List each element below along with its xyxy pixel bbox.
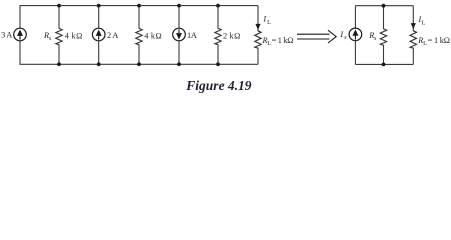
svg-text:A: A — [191, 31, 197, 40]
svg-text:A: A — [6, 31, 12, 40]
svg-text:kΩ: kΩ — [230, 31, 241, 40]
svg-text:3: 3 — [1, 31, 5, 40]
svg-text:s: s — [374, 35, 377, 42]
svg-text:kΩ: kΩ — [151, 31, 162, 40]
svg-text:s: s — [344, 34, 347, 41]
svg-text:Figure 4.19: Figure 4.19 — [185, 78, 252, 93]
svg-text:A: A — [112, 31, 118, 40]
svg-text:L: L — [423, 40, 427, 47]
svg-text:kΩ: kΩ — [72, 31, 83, 40]
svg-text:= 1 kΩ: = 1 kΩ — [428, 36, 450, 45]
svg-text:4: 4 — [144, 31, 149, 40]
svg-text:4: 4 — [65, 31, 70, 40]
svg-text:L: L — [422, 19, 426, 26]
svg-text:L: L — [267, 19, 271, 26]
svg-text:2: 2 — [107, 31, 111, 40]
svg-text:= 1 kΩ: = 1 kΩ — [272, 36, 294, 45]
svg-text:2: 2 — [223, 31, 227, 40]
svg-text:s: s — [49, 35, 52, 42]
